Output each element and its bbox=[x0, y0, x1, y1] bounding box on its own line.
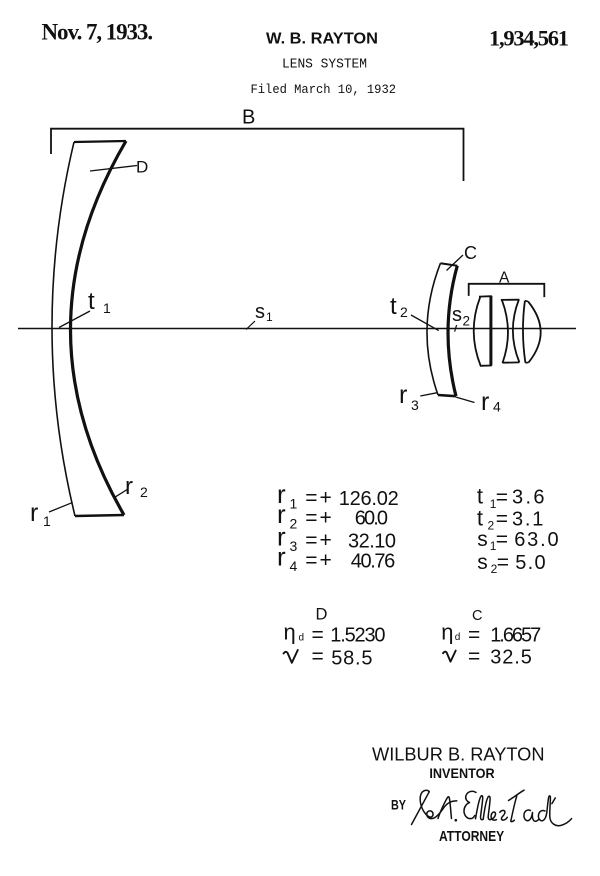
svg-text:Nov. 7, 1933.: Nov. 7, 1933. bbox=[42, 20, 154, 45]
svg-text:1: 1 bbox=[103, 300, 111, 316]
svg-text:d: d bbox=[455, 632, 461, 643]
svg-text:η: η bbox=[441, 620, 453, 645]
svg-text:=: = bbox=[497, 551, 509, 574]
svg-text:s: s bbox=[477, 528, 488, 551]
svg-text:t: t bbox=[390, 293, 397, 320]
svg-text:BY: BY bbox=[391, 798, 406, 813]
svg-text:d: d bbox=[299, 633, 305, 644]
svg-text:B: B bbox=[242, 107, 255, 129]
svg-text:63.0: 63.0 bbox=[514, 529, 558, 551]
svg-text:1.5230: 1.5230 bbox=[330, 624, 385, 646]
svg-text:2: 2 bbox=[488, 519, 495, 533]
svg-text:INVENTOR: INVENTOR bbox=[429, 765, 494, 781]
svg-text:r: r bbox=[277, 542, 286, 572]
svg-text:=: = bbox=[496, 528, 508, 551]
svg-text:3: 3 bbox=[290, 538, 298, 554]
svg-text:LENS SYSTEM: LENS SYSTEM bbox=[282, 58, 367, 73]
svg-text:126.02: 126.02 bbox=[339, 488, 399, 510]
svg-text:=: = bbox=[312, 623, 324, 646]
svg-text:Filed March 10, 1932: Filed March 10, 1932 bbox=[251, 82, 397, 97]
svg-text:ATTORNEY: ATTORNEY bbox=[439, 829, 504, 845]
svg-text:1: 1 bbox=[290, 496, 298, 512]
svg-text:4: 4 bbox=[290, 558, 298, 574]
svg-text:r: r bbox=[30, 499, 38, 527]
svg-text:s: s bbox=[452, 304, 462, 326]
svg-text:=: = bbox=[468, 645, 480, 668]
svg-text:2: 2 bbox=[290, 516, 298, 532]
svg-text:A: A bbox=[499, 270, 510, 287]
svg-text:1: 1 bbox=[266, 310, 273, 324]
svg-text:5.0: 5.0 bbox=[515, 552, 545, 574]
svg-text:32.10: 32.10 bbox=[348, 530, 396, 552]
svg-text:58.5: 58.5 bbox=[331, 648, 372, 670]
svg-text:r: r bbox=[125, 473, 133, 500]
svg-text:1.6657: 1.6657 bbox=[490, 625, 541, 647]
svg-text:=: = bbox=[312, 645, 324, 668]
svg-text:=: = bbox=[305, 507, 317, 530]
svg-text:W. B. RAYTON: W. B. RAYTON bbox=[266, 31, 378, 48]
svg-text:s: s bbox=[255, 301, 265, 323]
svg-text:3.6: 3.6 bbox=[512, 487, 545, 509]
svg-text:D: D bbox=[316, 606, 328, 624]
svg-text:=: = bbox=[305, 549, 317, 572]
svg-text:η: η bbox=[284, 619, 296, 644]
svg-text:C: C bbox=[472, 608, 482, 624]
svg-text:s: s bbox=[477, 551, 488, 574]
svg-text:r: r bbox=[481, 388, 489, 416]
svg-text:1,934,561: 1,934,561 bbox=[489, 26, 569, 51]
svg-text:=: = bbox=[468, 624, 480, 647]
svg-text:40.76: 40.76 bbox=[351, 550, 396, 572]
svg-text:+: + bbox=[320, 507, 332, 530]
svg-text:C: C bbox=[464, 243, 477, 263]
svg-text:3: 3 bbox=[411, 397, 419, 413]
svg-text:3.1: 3.1 bbox=[512, 508, 543, 530]
svg-text:4: 4 bbox=[493, 399, 501, 415]
svg-text:t: t bbox=[477, 505, 483, 530]
svg-text:2: 2 bbox=[140, 484, 148, 500]
svg-text:=: = bbox=[496, 486, 508, 509]
svg-text:2: 2 bbox=[400, 304, 408, 320]
svg-text:32.5: 32.5 bbox=[490, 647, 532, 669]
svg-text:D: D bbox=[136, 158, 148, 177]
svg-text:r: r bbox=[399, 381, 407, 409]
svg-text:2: 2 bbox=[463, 314, 471, 329]
svg-text:WILBUR B. RAYTON: WILBUR B. RAYTON bbox=[372, 745, 545, 765]
svg-text:60.0: 60.0 bbox=[355, 508, 388, 530]
svg-text:1: 1 bbox=[43, 513, 51, 529]
svg-text:+: + bbox=[320, 549, 332, 572]
